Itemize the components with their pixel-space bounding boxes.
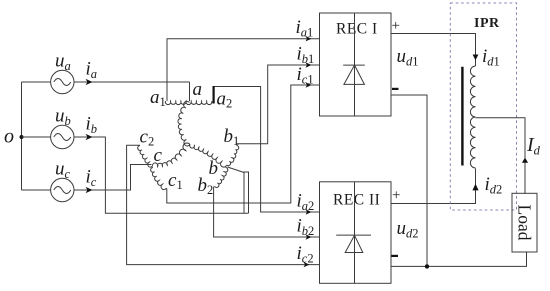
arrow i_b2 xyxy=(306,234,312,239)
wire b2 to REC II xyxy=(214,187,320,238)
wire a2 to REC II xyxy=(215,87,321,213)
arrow i_a1 xyxy=(306,36,312,41)
winding c to c1 xyxy=(151,168,167,190)
label minus REC I xyxy=(392,88,399,90)
wire IPR center tap to load xyxy=(476,118,526,194)
svg-text:REC II: REC II xyxy=(333,192,380,209)
svg-text:c: c xyxy=(154,145,163,166)
svg-text:a: a xyxy=(193,79,203,100)
wire c1 to REC I xyxy=(167,85,320,203)
svg-text:IPR: IPR xyxy=(474,16,500,31)
wire u_a to node a xyxy=(74,81,190,83)
source u_c xyxy=(22,178,75,201)
winding Ja to b xyxy=(190,145,227,168)
svg-text:Load: Load xyxy=(515,205,535,241)
arrow I_d xyxy=(522,158,528,163)
load box xyxy=(512,193,537,252)
arrow i_b xyxy=(86,134,93,140)
wire REC I minus down xyxy=(391,95,427,266)
wire REC I plus to IPR xyxy=(391,34,476,67)
diode U2 in REC II xyxy=(336,182,371,283)
IPR core bar xyxy=(461,67,463,166)
winding b to b2 xyxy=(215,167,228,187)
source u_b xyxy=(22,125,75,148)
label minus REC II xyxy=(392,255,399,257)
IPR dashed box xyxy=(450,3,516,210)
wire b vertex diagonal xyxy=(228,167,245,173)
arrow i_c2 xyxy=(304,262,310,267)
wire u_b down and right to node b xyxy=(74,137,249,213)
winding c2 to c xyxy=(138,146,153,168)
node junction dot negative bus xyxy=(425,264,429,268)
winding a to junction Ja xyxy=(178,101,190,146)
winding c to Ja xyxy=(152,143,190,167)
inductor IPR winding xyxy=(470,66,475,168)
wire REC II plus to IPR xyxy=(391,169,476,204)
source u_a xyxy=(22,70,75,93)
arrow i_a xyxy=(86,79,93,85)
wire a1 riser to REC I xyxy=(167,39,320,101)
wire b vertex riser pair xyxy=(244,172,249,213)
svg-text:o: o xyxy=(4,126,14,148)
arrow i_a2 xyxy=(306,209,312,214)
winding b1 to b xyxy=(227,145,239,165)
arrow i_d2 xyxy=(472,184,478,191)
arrow i_c1 xyxy=(306,82,312,87)
arrow i_b1 xyxy=(306,62,312,67)
svg-text:+: + xyxy=(392,188,400,204)
svg-text:b: b xyxy=(209,158,219,179)
wire u_c to node c xyxy=(74,165,152,191)
svg-text:REC I: REC I xyxy=(336,21,378,38)
wire left bus vertical o xyxy=(21,82,23,190)
rectifier REC II box xyxy=(320,182,392,283)
wire b1 to REC I xyxy=(236,65,320,144)
wire c2 to REC II xyxy=(127,145,320,264)
wire REC II minus to load xyxy=(391,252,527,266)
svg-text:+: + xyxy=(392,18,400,34)
wire tap a riser xyxy=(189,82,191,101)
winding a1-a2 top chain xyxy=(165,101,212,105)
arrow i_c xyxy=(86,187,93,193)
rectifier REC I box xyxy=(320,13,392,116)
node o junction dot xyxy=(20,135,24,139)
arrow i_d1 xyxy=(473,55,479,61)
diode U1 in REC I xyxy=(343,13,365,116)
polarity bar a2 xyxy=(213,86,215,104)
